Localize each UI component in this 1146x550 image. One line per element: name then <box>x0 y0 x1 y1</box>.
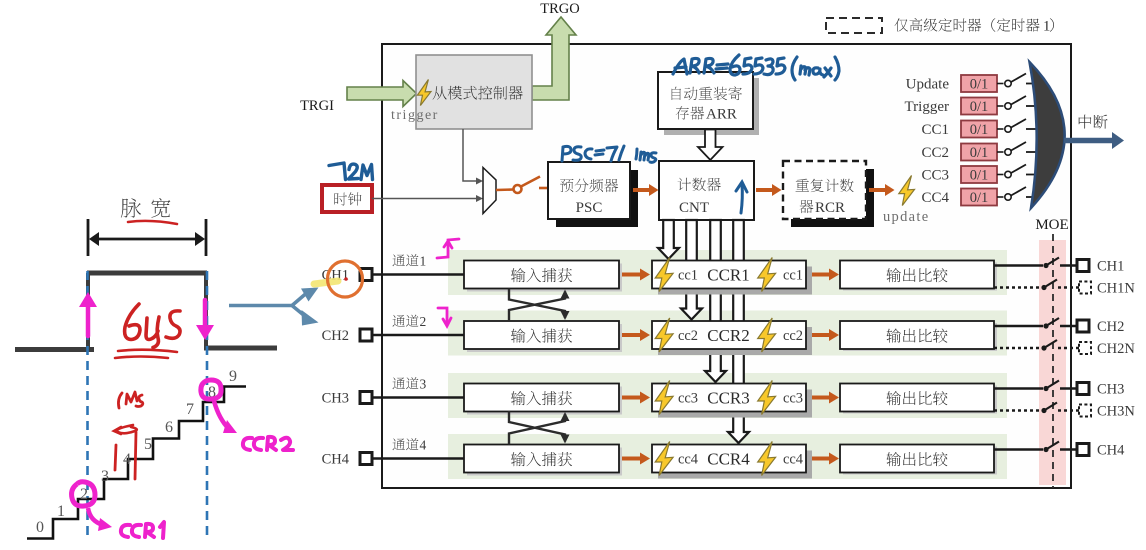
crossing arrows between input capture 3 and 4 <box>509 411 570 445</box>
hollow arrow CNT through CCR1,CCR2 to CCR3 <box>705 220 726 382</box>
svg-text:0: 0 <box>36 519 44 536</box>
TRGO label <box>540 1 579 17</box>
svg-text:RCR: RCR <box>815 200 845 216</box>
pulse rising edge vertical <box>86 273 90 349</box>
orange arrow PSC to CNT <box>633 184 659 196</box>
svg-text:2: 2 <box>80 486 88 503</box>
ARR auto-reload box with gray shadow <box>658 72 759 135</box>
svg-text:0/1: 0/1 <box>970 122 989 138</box>
RCR repeat counter dashed box with black shadow <box>783 161 874 227</box>
svg-text:5: 5 <box>144 436 152 453</box>
red tick marks on stairs <box>115 432 136 479</box>
MOE dashed line <box>1052 234 1054 488</box>
svg-text:1: 1 <box>57 503 65 520</box>
channel 3 row <box>322 377 650 415</box>
flag row CC2 <box>921 142 1041 161</box>
svg-text:CCR4: CCR4 <box>707 450 750 469</box>
output compare box channel 4 <box>840 445 997 475</box>
CCR3 content: bolts, cc3, CCR3 <box>655 381 803 415</box>
CCR2 magenta handwriting <box>243 437 293 450</box>
svg-text:1: 1 <box>1043 19 1050 35</box>
CCR3 register box <box>652 384 812 418</box>
blue dashed line rising edge <box>86 271 89 540</box>
svg-text:MOE: MOE <box>1035 217 1068 233</box>
svg-text:CNT: CNT <box>679 200 709 216</box>
red loop arrow <box>114 425 137 434</box>
CH2 output line with switch <box>994 318 1124 335</box>
magenta falling edge mark channel 2 <box>438 308 451 326</box>
orange arrow CNT to RCR <box>756 184 782 196</box>
svg-text:cc2: cc2 <box>783 328 803 344</box>
clock box (red) <box>322 185 372 212</box>
CCR1 register box <box>652 261 812 295</box>
counter staircase <box>27 387 246 539</box>
svg-text:CH4: CH4 <box>1097 443 1125 459</box>
output compare box channel 1 <box>840 261 997 291</box>
pulse waveform low level left <box>15 347 94 352</box>
svg-text:cc1: cc1 <box>678 268 698 284</box>
flag row Trigger <box>905 96 1041 115</box>
svg-text:CC1: CC1 <box>921 122 949 138</box>
orange arrow CCR1 to output compare <box>812 269 839 281</box>
flag row CC1 <box>921 119 1041 138</box>
CNT text <box>678 178 721 216</box>
PSC text <box>560 179 618 216</box>
svg-text:CC3: CC3 <box>921 168 949 184</box>
hollow arrow CNT through CCR1 to CCR2 <box>681 220 702 320</box>
TRGI input green arrow <box>347 81 417 107</box>
clock text <box>334 192 361 205</box>
svg-text:CH2: CH2 <box>322 328 349 344</box>
orange arrow CCR4 to output compare <box>812 453 839 465</box>
svg-text:CH1N: CH1N <box>1097 281 1135 297</box>
svg-text:CC2: CC2 <box>921 145 949 161</box>
magenta rising edge mark channel 1 <box>437 239 459 258</box>
slave mode controller text <box>433 86 523 100</box>
mux trapezoid <box>483 168 496 214</box>
flag row CC3 <box>921 165 1041 184</box>
CH1N complementary dotted line with switch <box>994 280 1135 297</box>
channel 2 row <box>322 314 650 352</box>
wire clock to mux <box>372 195 483 202</box>
blue dashed line falling edge <box>206 271 209 541</box>
red double underline under 6us <box>115 350 177 358</box>
pulse waveform high level <box>87 271 207 276</box>
hollow arrow ARR down to CNT <box>698 130 723 161</box>
ARR text <box>672 86 742 122</box>
update label <box>883 209 929 225</box>
update lightning bolt <box>899 176 915 206</box>
svg-text:cc1: cc1 <box>783 268 803 284</box>
pulse-width title <box>121 198 170 218</box>
svg-text:cc4: cc4 <box>783 452 804 468</box>
svg-text:CH4: CH4 <box>322 452 350 468</box>
magenta down arrow at falling edge <box>196 300 214 340</box>
svg-text:CH3: CH3 <box>1097 382 1124 398</box>
72M handwriting (blue) <box>329 163 373 180</box>
svg-text:4: 4 <box>123 451 131 468</box>
svg-text:1: 1 <box>420 254 427 269</box>
magenta up arrow at rising edge <box>79 292 97 336</box>
magenta arrow to CCR2 <box>214 401 237 433</box>
blue split arrow to CH1 and CH2 <box>229 288 319 326</box>
svg-text:3: 3 <box>101 468 109 485</box>
red dot inside circle <box>344 277 348 281</box>
CCR4 register box <box>652 445 812 479</box>
svg-text:CH3N: CH3N <box>1097 404 1135 420</box>
svg-text:TRGO: TRGO <box>540 1 579 17</box>
channel 4 row <box>322 438 650 476</box>
interrupt OR crescent <box>1030 62 1065 208</box>
svg-text:0/1: 0/1 <box>970 77 989 93</box>
6us red handwriting <box>125 304 180 348</box>
red underline under title <box>128 221 177 224</box>
svg-text:3: 3 <box>420 377 427 392</box>
CNT counter box <box>659 161 754 220</box>
MOE pink strip <box>1039 240 1066 485</box>
crossing arrows between input capture 1 and 2 <box>509 289 570 322</box>
output compare box channel 2 <box>840 321 997 351</box>
svg-text:CH3: CH3 <box>322 391 349 407</box>
svg-text:ARR: ARR <box>706 107 737 123</box>
svg-text:cc3: cc3 <box>783 391 803 407</box>
svg-text:CH1: CH1 <box>1097 259 1124 275</box>
flag row Update <box>906 74 1041 93</box>
output compare box channel 3 <box>840 384 997 414</box>
stair step numbers <box>36 368 237 536</box>
svg-text:CH2N: CH2N <box>1097 341 1135 357</box>
TRGO output green arrow <box>532 17 576 100</box>
magenta arrow to CCR1 <box>88 508 112 531</box>
CCR2 register box <box>652 321 812 355</box>
svg-text:2: 2 <box>420 314 427 329</box>
measurement double arrow <box>88 219 206 256</box>
flag row CC4 <box>921 187 1041 206</box>
RCR text <box>795 179 853 216</box>
svg-text:CH2: CH2 <box>1097 319 1124 335</box>
legend dashed box <box>826 18 882 33</box>
CCR4 content: bolts, cc4, CCR4 <box>655 442 804 476</box>
hollow arrow CNT to CCR1 <box>658 220 679 259</box>
yellow highlighter streak <box>314 281 338 284</box>
svg-text:PSC: PSC <box>576 200 603 216</box>
wire slave box to mux <box>463 129 483 185</box>
ARR=65535(max) handwriting (blue) <box>673 55 839 80</box>
channel green bands <box>448 250 1007 479</box>
TRGI label <box>300 98 334 114</box>
CCR1 magenta handwriting <box>121 522 164 538</box>
interrupt label <box>1079 115 1108 129</box>
CCR1 content: bolts, cc1, CCR1 <box>655 258 803 292</box>
pulse falling edge vertical <box>204 273 208 347</box>
svg-text:Update: Update <box>906 77 950 93</box>
svg-text:7: 7 <box>186 401 194 418</box>
svg-text:cc4: cc4 <box>678 452 699 468</box>
outer timer block box <box>382 44 1071 488</box>
CNT blue up arrow (hand-drawn) <box>736 182 747 213</box>
CH3 output line with switch <box>994 381 1124 398</box>
CCR2 content: bolts, cc2, CCR2 <box>655 318 803 352</box>
CH3N complementary dotted line with switch <box>994 403 1135 420</box>
svg-text:TRGI: TRGI <box>300 98 334 114</box>
legend text: advanced timer only <box>895 18 1054 34</box>
CH2N complementary dotted line with switch <box>994 340 1135 357</box>
CH4 output line with switch <box>994 442 1125 459</box>
svg-text:cc2: cc2 <box>678 328 698 344</box>
orange arrow CCR3 to output compare <box>812 392 839 404</box>
PSC prescaler box with black shadow <box>548 162 638 227</box>
orange arrow CCR2 to output compare <box>812 329 839 341</box>
red 1us annotation <box>118 392 142 408</box>
svg-text:cc3: cc3 <box>678 391 698 407</box>
svg-text:9: 9 <box>229 368 237 385</box>
channel 1 row <box>322 254 650 292</box>
PSC=71 1ms handwriting (blue) <box>562 146 656 162</box>
trigger label <box>391 108 439 123</box>
orange arrow RCR to update <box>869 184 895 196</box>
interrupt arrow (blue) <box>1064 132 1124 149</box>
orange switch wire mux to PSC <box>496 177 548 194</box>
svg-text:Trigger: Trigger <box>905 99 949 115</box>
svg-text:CCR2: CCR2 <box>707 326 750 345</box>
svg-text:CC4: CC4 <box>921 190 949 206</box>
svg-text:0/1: 0/1 <box>970 190 989 206</box>
svg-text:0/1: 0/1 <box>970 145 989 161</box>
slave box lightning bolt <box>417 80 431 106</box>
svg-text:CCR1: CCR1 <box>707 266 750 285</box>
magenta circle around step 2 <box>72 482 95 506</box>
svg-text:0/1: 0/1 <box>970 168 989 184</box>
svg-text:update: update <box>883 209 929 225</box>
svg-text:trigger: trigger <box>391 108 439 123</box>
MOE label <box>1035 217 1068 233</box>
orange circle around CH1 <box>328 261 363 297</box>
svg-text:4: 4 <box>420 438 427 453</box>
hollow arrow CNT through CCR1-CCR3 to CCR4 <box>728 220 749 443</box>
svg-text:CCR3: CCR3 <box>707 389 750 408</box>
svg-text:0/1: 0/1 <box>970 99 989 115</box>
magenta circle around step 8 <box>201 380 221 399</box>
slave mode controller box <box>416 55 532 129</box>
pulse waveform low level right <box>204 346 277 351</box>
svg-text:6: 6 <box>165 419 173 436</box>
CH1 output line with switch <box>994 258 1124 275</box>
